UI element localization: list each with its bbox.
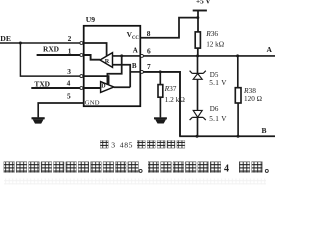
wire R37 to ground [159,97,161,117]
wire D5 to D6 [197,79,199,110]
svg-text:6: 6 [147,47,151,56]
IC U9 body [84,26,141,106]
resistor R37 [158,85,163,98]
svg-text:120 Ω: 120 Ω [244,95,262,103]
caption: fig 3 485 module schematic [100,141,185,150]
svg-text:2: 2 [68,34,72,43]
pin 7 bubble [140,70,143,73]
wire A to D5 [197,56,199,74]
svg-text:A: A [267,45,273,54]
svg-text:D: D [101,84,106,90]
wire +5V down [197,11,199,32]
node B line [179,135,275,137]
junction B / R38 [237,135,240,138]
wire D output to B step [114,86,130,88]
wire pin 8 Vcc [140,18,197,38]
svg-text:D6: D6 [210,105,219,113]
svg-text:U9: U9 [86,15,95,24]
driver D triangle (inside U9) [101,82,114,93]
svg-text:5.1 V: 5.1 V [209,115,227,123]
wire DE to pin 2 [0,42,80,44]
svg-text:3: 3 [111,141,115,150]
wire TXD to pin 4 [31,87,80,89]
svg-text:DE: DE [0,34,11,43]
junction +5V [196,16,199,19]
resistor R38 [235,88,241,103]
svg-text:B: B [262,126,267,135]
body text line [4,162,268,175]
svg-text:5.1 V: 5.1 V [209,79,227,87]
wire pin 3 to D enable [84,76,109,84]
pin 4 bubble [80,87,83,90]
zener D6 [190,110,206,120]
svg-text:4: 4 [67,78,71,87]
svg-text:8: 8 [147,29,151,38]
junction A / R36 / D5 [196,54,199,57]
resistor R36 [195,32,200,48]
svg-text:+5 V: +5 V [196,0,211,5]
svg-text:4: 4 [224,163,229,174]
wire D6 to B line [197,117,199,136]
wire R input to B via step [113,65,131,87]
svg-text:R: R [105,58,110,65]
junction DE [19,42,22,45]
zener D5 [190,71,206,80]
node A line [144,55,276,57]
wire pin 7 to corner [144,72,181,136]
wire pin 5 to ground [38,103,83,117]
wire DE down to pin 3 [20,43,80,76]
wire B inside IC [130,71,140,73]
pin 1 bubble [80,54,83,57]
svg-text:7: 7 [147,62,151,71]
svg-text:1.2 kΩ: 1.2 kΩ [165,95,186,104]
junction pin7 / R37 [159,70,162,73]
wire D output to A line [107,56,121,84]
svg-text:B: B [132,62,137,70]
wire R input / A line inside IC [113,55,140,57]
power rail bar [193,10,207,12]
wire A to R38 [237,56,239,88]
svg-text:RXD: RXD [43,45,59,54]
svg-text:A: A [133,46,138,54]
wire pin 2 to R enable [84,43,107,56]
wire to R37 [159,72,161,85]
svg-text:12 kΩ: 12 kΩ [206,40,224,48]
wire R38 to B line [237,103,239,136]
svg-text:D5: D5 [210,71,219,79]
receiver R triangle (inside U9) [100,53,113,68]
junction B / D6 [196,135,199,138]
svg-text:3: 3 [67,67,71,76]
svg-text:5: 5 [67,92,71,101]
wire R36 to A line [197,48,199,56]
junction on A line [120,54,123,57]
wire pin 1 to R output [84,55,100,60]
junction A / R38 [236,54,239,57]
svg-text:485: 485 [120,141,133,150]
svg-text:1: 1 [68,46,72,55]
ground (R37) [154,117,167,123]
wire RXD to pin 1 [37,54,80,56]
pin 3 bubble [80,75,83,78]
wire pin 4 to D input [84,87,101,89]
ground (left, pin 5) [32,117,45,123]
pin 6 bubble [140,54,143,57]
faint bleed-through of next line [4,179,266,185]
pin 2 bubble [80,42,83,45]
svg-text:R36: R36 [205,29,218,38]
svg-text:R38: R38 [243,86,256,95]
svg-text:R37: R37 [164,84,177,93]
svg-text:GND: GND [85,100,100,107]
